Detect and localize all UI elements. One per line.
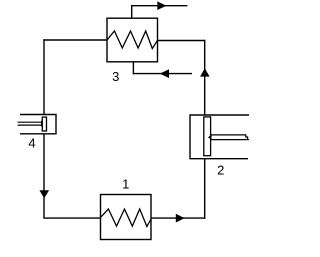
heat exchanger 1 coil (zigzag) [101,209,152,227]
wire left vertical riser (lower segment, device 4 to bottom corner) [43,134,45,218]
flow arrow right (bottom wire) [176,214,185,223]
heat exchanger 3 body [107,18,158,62]
label 3 [112,69,119,84]
external stream line out (top) [131,5,187,7]
wire top-left horizontal (exchanger 3 left port to left riser) [43,39,107,41]
piston device 4 rod end cap [42,121,45,125]
wire bottom-right horizontal (exchanger 1 to right riser) [151,217,205,219]
flow arrow up (right riser) [200,68,210,76]
wire left vertical riser (upper segment, corner to device 4) [43,39,45,114]
external stream arrow right (top) [157,1,166,10]
heat exchanger 1 body [101,195,152,240]
piston device 4 piston plate [42,117,46,131]
heat exchanger 3 coil (zigzag) [107,31,158,49]
exchanger 3 top stub [131,6,133,19]
wire top-right horizontal (right riser to exchanger 3 right port) [158,40,206,42]
svg-text:3: 3 [112,69,119,84]
wire right vertical riser (lower segment, bottom corner to device 2) [204,159,206,219]
svg-text:2: 2 [217,162,224,177]
exchanger 3 bottom stub [132,62,134,75]
label 1 [122,177,129,192]
piston device 2 rod wedge joint [208,135,212,140]
external stream line in (below exchanger 3) [133,73,192,75]
piston device 2 rod (with stepped end) [211,135,249,140]
wire right vertical riser (upper segment, device 2 to top corner) [204,40,206,115]
piston device 2 piston plate [204,117,211,156]
piston device 4 rod (double line) [18,122,43,125]
external stream arrow left (below exchanger 3) [160,69,169,78]
label 2 [217,162,224,177]
flow arrow down (left riser) [39,190,49,198]
piston device 4 cylinder (open left) [20,115,56,134]
svg-text:1: 1 [122,177,129,192]
piston device 2 cylinder (open right) [190,115,249,159]
svg-text:4: 4 [28,136,35,151]
wire bottom-left horizontal (bottom corner to exchanger 1) [43,217,100,219]
label 4 [28,136,35,151]
